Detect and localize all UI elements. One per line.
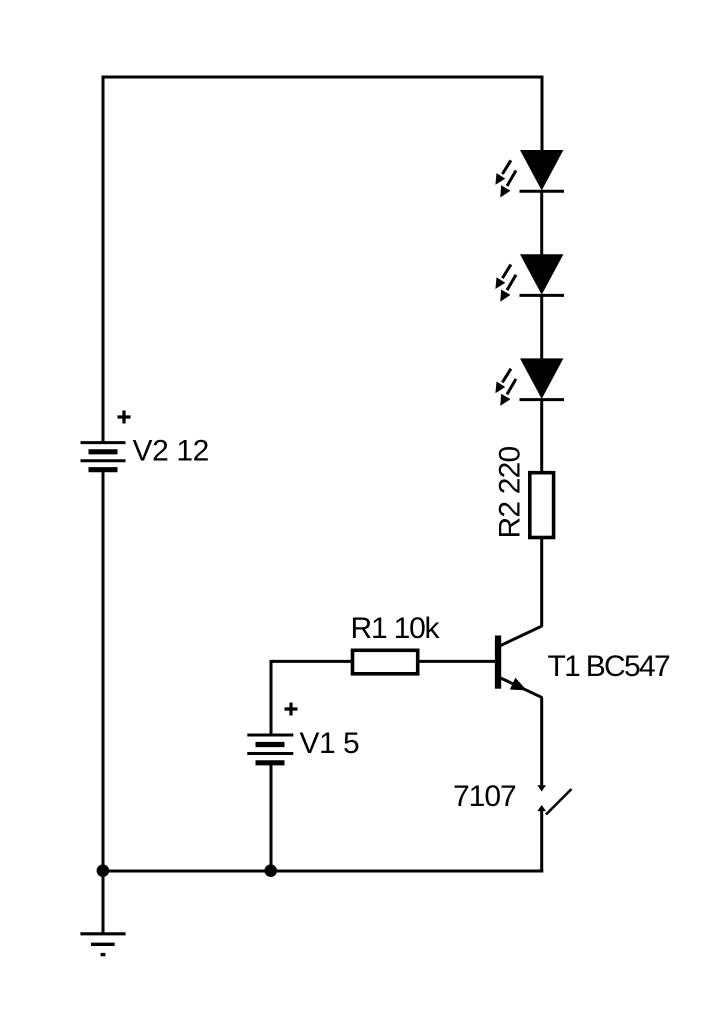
wire led3 to R2 <box>540 400 543 474</box>
battery V2 <box>81 411 209 470</box>
wire emitter down to switch <box>540 698 543 786</box>
LED D3 <box>495 358 564 406</box>
junction node V1 <box>264 864 277 877</box>
resistor R1 <box>351 612 441 674</box>
wire switch bottom <box>540 810 543 873</box>
wire bottom <box>102 870 544 873</box>
LED D2 <box>495 254 564 302</box>
wire ground stem <box>102 871 105 934</box>
svg-text:V2 12: V2 12 <box>133 435 209 468</box>
svg-text:R1 10k: R1 10k <box>351 612 441 645</box>
svg-text:T1 BC547: T1 BC547 <box>548 650 670 683</box>
wire main loop: left rail + top wire + right rail <box>103 77 542 443</box>
wire R1 left to V1 <box>271 661 353 735</box>
wire V1 bottom <box>270 763 273 871</box>
junction node left <box>97 864 110 877</box>
LED D1 <box>495 150 564 198</box>
wire R2 to collector <box>540 538 543 627</box>
wire left rail lower <box>102 470 105 871</box>
switch 7107 <box>453 780 572 815</box>
resistor R2 <box>494 446 554 538</box>
ground <box>80 934 125 955</box>
wire led2-led3 <box>540 295 543 359</box>
wire led1-led2 <box>540 191 543 255</box>
svg-text:V1 5: V1 5 <box>300 727 360 760</box>
svg-text:R2 220: R2 220 <box>494 446 527 538</box>
svg-text:7107: 7107 <box>453 780 516 813</box>
transistor T1 <box>495 626 670 698</box>
battery V1 <box>247 703 359 763</box>
wire base <box>418 660 496 663</box>
